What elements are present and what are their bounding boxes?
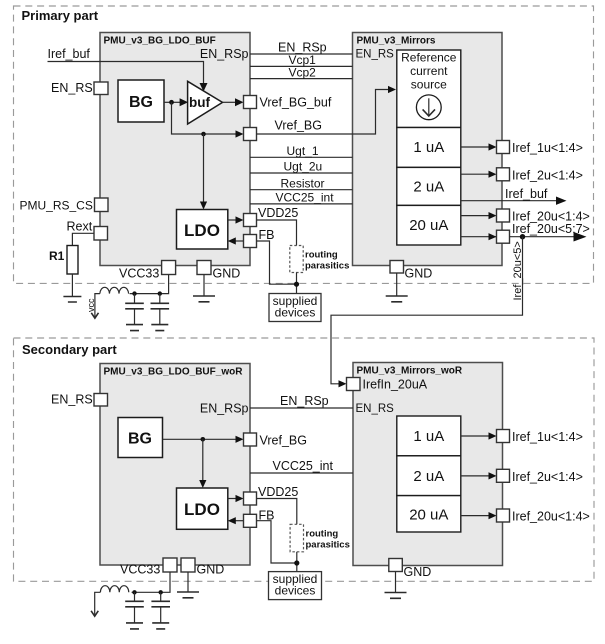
port Vref_BG xyxy=(244,128,257,141)
svg-text:Iref_1u<1:4>: Iref_1u<1:4> xyxy=(512,430,583,444)
svg-text:VDD25: VDD25 xyxy=(258,206,298,220)
ground C2 xyxy=(151,325,168,331)
svg-text:EN_RSp: EN_RSp xyxy=(280,394,329,408)
svg-text:2 uA: 2 uA xyxy=(413,179,444,196)
svg-text:devices: devices xyxy=(275,306,316,320)
svg-text:Iref_1u<1:4>: Iref_1u<1:4> xyxy=(512,141,583,155)
port Vref_BG_buf xyxy=(223,101,237,103)
ground mirrors P xyxy=(386,296,408,302)
wire 1uA output S xyxy=(461,435,490,437)
ground GND P xyxy=(193,296,215,302)
svg-text:Ugt_2u: Ugt_2u xyxy=(284,160,323,174)
wire GND S to ground xyxy=(187,572,189,592)
svg-text:Iref_buf: Iref_buf xyxy=(505,187,548,201)
supplied devices box P xyxy=(269,294,321,322)
current source symbol xyxy=(416,95,441,120)
port GND S left xyxy=(181,558,195,572)
svg-text:GND: GND xyxy=(213,267,241,281)
capacitor C3 xyxy=(134,592,136,601)
port Iref_20u 5:7 xyxy=(497,230,510,243)
wire parasitics to supplied S xyxy=(296,552,298,572)
mirror box 1 uA S xyxy=(397,416,461,456)
port Iref_1u xyxy=(497,141,510,154)
svg-text:Rext: Rext xyxy=(67,220,93,234)
svg-text:VDD25: VDD25 xyxy=(258,485,298,499)
port Iref_20u S xyxy=(497,509,510,522)
svg-text:routing: routing xyxy=(305,250,338,261)
reference current source box xyxy=(397,50,461,128)
inductor L1 xyxy=(100,287,129,293)
wire 2uA output xyxy=(461,173,490,175)
capacitor C4 xyxy=(160,592,162,601)
buffer buf U3 xyxy=(188,81,223,124)
svg-text:Iref_20u<1:4>: Iref_20u<1:4> xyxy=(512,510,590,524)
ground mirrors S xyxy=(385,593,407,599)
svg-text:Ugt_1: Ugt_1 xyxy=(287,144,319,158)
node junction cap C4 xyxy=(159,590,163,594)
svg-text:EN_RS: EN_RS xyxy=(356,49,395,61)
svg-text:Vcp2: Vcp2 xyxy=(289,65,317,79)
svg-text:buf: buf xyxy=(189,95,210,110)
mirror box 1 uA xyxy=(397,128,461,168)
wire parasitics to supplied devices xyxy=(296,273,298,294)
svg-text:Vref_BG: Vref_BG xyxy=(260,434,307,448)
svg-text:devices: devices xyxy=(275,584,316,598)
wire VDD25 to routing parasitics xyxy=(257,220,297,246)
svg-text:routing: routing xyxy=(306,529,339,540)
wire Ugt_2u xyxy=(250,172,353,174)
svg-text:LDO: LDO xyxy=(184,221,220,240)
svg-text:Secondary part: Secondary part xyxy=(22,342,117,357)
wire Iref_20u 5:7 out xyxy=(510,236,576,238)
block U5 PMU_v3_Mirrors_woR xyxy=(353,363,503,566)
block U2 PMU_v3_Mirrors xyxy=(353,33,503,266)
wire Vcp1 xyxy=(250,65,353,67)
node junction Iref_20u5 xyxy=(520,234,525,239)
node junction BG out S xyxy=(201,437,206,442)
wire Iref_20u5 route to secondary xyxy=(331,237,523,384)
svg-text:parasitics: parasitics xyxy=(305,261,349,272)
node junction FB supplied xyxy=(294,282,299,287)
routing parasitics Rp1 xyxy=(290,246,303,273)
node junction cap C2 xyxy=(158,291,162,295)
port VDD25 P xyxy=(228,219,237,221)
port GND mirrors S xyxy=(389,559,403,572)
wire FB net S xyxy=(257,521,297,563)
port GND mirrors xyxy=(390,261,404,274)
wire 20uA output 1 xyxy=(461,215,490,217)
wire VCC33 S to LC filter xyxy=(132,572,170,592)
port Iref_2u xyxy=(497,168,510,181)
svg-text:Vref_BG_buf: Vref_BG_buf xyxy=(260,96,332,110)
node junction BG output xyxy=(169,100,174,105)
svg-text:Iref_2u<1:4>: Iref_2u<1:4> xyxy=(512,470,583,484)
wire Resistor xyxy=(250,189,353,191)
capacitor C1 xyxy=(134,294,136,303)
LDO S xyxy=(177,488,228,529)
svg-text:Vref_BG: Vref_BG xyxy=(275,119,322,133)
wire VCC25_int xyxy=(250,203,353,205)
svg-text:Iref_buf: Iref_buf xyxy=(48,47,91,61)
wire BG to Vref_BG port S xyxy=(163,438,237,440)
port FB S xyxy=(236,520,244,522)
svg-text:1 uA: 1 uA xyxy=(413,139,444,156)
node junction cap C3 xyxy=(132,590,136,594)
wire BG to buf xyxy=(164,101,180,103)
svg-text:Primary part: Primary part xyxy=(22,8,99,23)
svg-text:Resistor: Resistor xyxy=(281,176,325,190)
svg-text:R1: R1 xyxy=(49,249,65,263)
svg-text:BG: BG xyxy=(128,431,152,448)
wire Rext to R1 xyxy=(72,233,94,245)
svg-text:VCC33: VCC33 xyxy=(120,563,160,577)
mirror box 2 uA S xyxy=(397,456,461,496)
port VDD25 S xyxy=(228,498,237,500)
wire R1 to ground xyxy=(71,274,73,297)
port Iref_1u S xyxy=(497,430,510,443)
ground C3 xyxy=(126,623,143,629)
svg-text:EN_RS: EN_RS xyxy=(51,393,93,407)
node junction Vref_BG to LDO xyxy=(201,132,206,137)
svg-text:PMU_v3_BG_LDO_BUF: PMU_v3_BG_LDO_BUF xyxy=(104,36,216,47)
svg-text:FB: FB xyxy=(259,228,275,242)
wire 20uA output S xyxy=(461,515,490,517)
wire VCC25_int S xyxy=(250,472,353,474)
wire Ugt_1 xyxy=(250,156,353,158)
svg-text:vcc: vcc xyxy=(86,298,96,312)
wire 20uA output 2 xyxy=(461,236,497,238)
svg-text:source: source xyxy=(411,78,447,92)
wire GND mirrors S to ground xyxy=(395,572,397,593)
block U4 PMU_v3_BG_LDO_BUF_woR xyxy=(100,364,250,566)
svg-text:PMU_v3_BG_LDO_BUF_woR: PMU_v3_BG_LDO_BUF_woR xyxy=(104,367,244,378)
svg-text:VCC25_int: VCC25_int xyxy=(276,191,335,205)
supplied devices box S xyxy=(269,572,322,600)
svg-text:PMU_RS_CS: PMU_RS_CS xyxy=(20,199,93,213)
svg-text:EN_RSp: EN_RSp xyxy=(200,402,249,416)
primary part boundary xyxy=(14,6,594,283)
mirror box 2 uA xyxy=(397,167,461,205)
routing parasitics Rp2 xyxy=(290,524,303,552)
secondary part boundary xyxy=(14,338,595,581)
wire 2uA output S xyxy=(461,475,490,477)
wire VCC33 to LC filter xyxy=(130,275,169,294)
svg-text:EN_RS: EN_RS xyxy=(51,81,93,95)
wire GND to ground xyxy=(203,275,205,297)
LDO xyxy=(177,210,228,250)
block U1 PMU_v3_BG_LDO_BUF xyxy=(100,33,250,266)
svg-text:EN_RS: EN_RS xyxy=(356,403,395,415)
bandgap BG xyxy=(118,80,164,122)
svg-text:parasitics: parasitics xyxy=(306,540,350,551)
svg-text:current: current xyxy=(410,64,448,78)
svg-text:GND: GND xyxy=(404,565,432,579)
svg-text:LDO: LDO xyxy=(184,500,220,519)
svg-text:20 uA: 20 uA xyxy=(409,217,448,234)
svg-text:GND: GND xyxy=(405,267,433,281)
wire GND mirrors to ground xyxy=(396,273,398,296)
svg-text:PMU_v3_Mirrors_woR: PMU_v3_Mirrors_woR xyxy=(357,366,463,377)
wire Vcp2 xyxy=(250,78,353,80)
wire 1uA output xyxy=(461,146,490,148)
wire Vref_BG down to LDO xyxy=(203,134,205,203)
wire Iref_buf output xyxy=(461,200,558,202)
ground GND S xyxy=(177,592,199,598)
ground C4 xyxy=(152,623,169,629)
arrow vcc S xyxy=(91,611,98,616)
bandgap BG S xyxy=(118,418,163,458)
port GND P xyxy=(197,261,211,275)
svg-text:20 uA: 20 uA xyxy=(409,507,448,524)
port IrefIn_20uA xyxy=(347,378,361,391)
wire FB net xyxy=(257,241,297,284)
svg-text:EN_RSp: EN_RSp xyxy=(200,47,249,61)
svg-text:2 uA: 2 uA xyxy=(413,468,444,485)
wire VDD25 to parasitics S xyxy=(257,499,297,525)
mirror box 20 uA S xyxy=(397,496,461,532)
capacitor C2 xyxy=(159,294,161,303)
svg-text:VCC33: VCC33 xyxy=(119,267,159,281)
svg-text:BG: BG xyxy=(129,94,153,111)
inductor L2 xyxy=(100,586,128,593)
wire vcc lead S xyxy=(95,592,101,614)
arrow vcc xyxy=(91,313,98,318)
port Vref_BG S xyxy=(244,433,257,446)
svg-text:1 uA: 1 uA xyxy=(413,428,444,445)
node junction FB S xyxy=(294,560,299,565)
svg-text:PMU_v3_Mirrors: PMU_v3_Mirrors xyxy=(357,36,436,47)
wire Iref_buf to buf input xyxy=(48,62,204,85)
svg-text:IrefIn_20uA: IrefIn_20uA xyxy=(363,378,428,392)
ground C1 xyxy=(126,325,143,331)
wire vcc lead xyxy=(95,294,100,317)
mirror box 20 uA xyxy=(397,205,461,245)
port Iref_20u 1:4 xyxy=(497,209,510,222)
ground R1 xyxy=(63,297,81,303)
port FB P xyxy=(236,240,244,242)
svg-text:Reference: Reference xyxy=(401,51,457,65)
svg-text:Iref_2u<1:4>: Iref_2u<1:4> xyxy=(512,168,583,182)
svg-text:VCC25_int: VCC25_int xyxy=(273,459,334,473)
node junction cap C1 xyxy=(132,291,136,295)
wire BG to LDO S xyxy=(202,439,204,481)
svg-text:GND: GND xyxy=(197,563,225,577)
wire Vref_BG to reference current source xyxy=(257,90,390,135)
wire BG output to Vref_BG port xyxy=(172,102,237,134)
port Iref_2u S xyxy=(497,469,510,482)
